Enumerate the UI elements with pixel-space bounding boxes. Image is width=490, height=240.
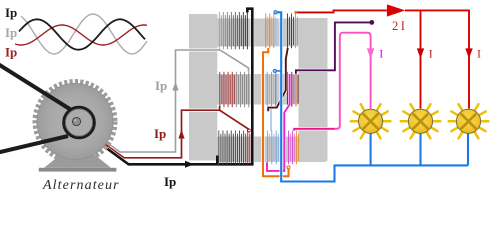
transformer T2 primary winding (dark red + gray) (220, 72, 249, 108)
svg-text:Ip: Ip (5, 25, 17, 40)
wire black phase from alternator (to top of T1 via right vertical) (107, 9, 252, 165)
wire red branch to lamp2 (420, 10, 422, 108)
alternator stand pedestal (44, 155, 111, 168)
svg-text:Ip: Ip (155, 78, 167, 93)
arrow red current I on lamp2 feed (417, 48, 424, 58)
wire gray phase from alternator (diagonal + horizontal + vertical up) (101, 50, 220, 152)
lamp L1 (351, 104, 391, 138)
arrow red 2I (387, 4, 405, 16)
svg-text:Ip: Ip (164, 174, 176, 189)
transformer T3 secondary winding b (magenta + orange) (289, 131, 299, 165)
wire sine curve phase 3 (dark red) (15, 25, 147, 45)
wire dark red diagonal into T3 top-right (220, 106, 249, 129)
wire orange from T1a down around to T3b bottom (263, 48, 289, 176)
arrow dark red Ip up (178, 130, 184, 139)
svg-text:Ip: Ip (5, 45, 17, 60)
node terminal circle dark red at T3 winding top (248, 129, 251, 132)
arrow red current I on lamp3 feed (465, 48, 472, 58)
alternator wheel disc (37, 84, 113, 160)
wire gray diagonal into T2 top-right (220, 50, 249, 72)
transformer core T1 top limb (217, 19, 302, 47)
transformer T2 secondary winding a (light blue) (267, 72, 276, 107)
alternator shaft center (72, 117, 80, 125)
alternator wheel teeth ring (35, 81, 115, 161)
transformer T3 primary winding (dark gray + dark red) (219, 131, 250, 166)
node purple end dot (369, 20, 374, 25)
svg-text:2 I: 2 I (392, 19, 405, 33)
arrow pink current I on lamp1 feed (367, 48, 374, 58)
transformer T3 secondary winding a (light blue) (267, 131, 278, 165)
node blue terminal circle at T2a top (273, 69, 276, 72)
transformer core left leg (189, 14, 217, 161)
alternator pulley hub (65, 109, 92, 136)
wire blue lamp3 return (467, 134, 469, 166)
alternator belt lower run (0, 136, 68, 153)
transformer T1 secondary winding b (maroon + orange) (288, 14, 298, 49)
wire dark red phase from alternator (104, 110, 220, 158)
svg-text:I: I (477, 46, 481, 60)
lamp L3 (449, 104, 489, 138)
arrow black Ip right (185, 161, 194, 168)
wire sine curve phase 1 (black) (19, 19, 145, 49)
transformer core right leg (299, 18, 328, 161)
alternator belt around pulley (64, 107, 95, 138)
transformer T1 secondary winding a (orange + light blue) (266, 14, 276, 49)
wire red from T1b top to lamps (main feeder) (296, 11, 335, 13)
transformer T2 secondary winding b (maroon + magenta + orange) (288, 72, 299, 107)
svg-text:I: I (379, 46, 383, 60)
wire sine curve phase 2 (gray) (21, 14, 147, 54)
lamp L2 (401, 104, 441, 138)
wire deep pink from T3b top to lamp L1 (294, 33, 370, 131)
svg-text:Ip: Ip (154, 126, 166, 141)
wire blue lamp2 return (419, 134, 421, 166)
transformer T1 primary winding (gray-to-black) (219, 12, 247, 49)
node orange dot at red wire start (294, 11, 297, 14)
transformer core T2 middle limb (217, 74, 302, 105)
alternator stand base plate (39, 168, 117, 172)
wire maroon from T1b down to T2a bottom-left (268, 48, 288, 111)
wire black stub up into T3 winding bottom-left (216, 156, 219, 165)
node blue terminal circle top (274, 11, 277, 14)
wire blue lamp1 return (370, 134, 372, 166)
wire light blue link T2a to T3a (270, 106, 272, 132)
wire purple from T2b top to open end (dot) (296, 22, 371, 73)
wire blue stub to T2a top (277, 70, 282, 72)
wire magenta from T2b down around to T3a bottom (267, 74, 290, 171)
alternator belt upper run (0, 64, 71, 110)
arrow gray Ip up (172, 82, 178, 91)
wire blue from T1 top down to lamp return bus (277, 12, 468, 181)
svg-text:Ip: Ip (5, 5, 17, 20)
transformer core T3 bottom limb (217, 137, 326, 163)
svg-text:Alternateur: Alternateur (42, 178, 120, 193)
svg-text:I: I (429, 46, 433, 60)
node terminal circle orange at T3b (287, 166, 290, 169)
wire red after arrow to lamp3 corner (405, 10, 469, 108)
